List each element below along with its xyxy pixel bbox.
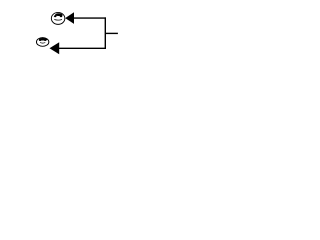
face icon F2 (bottom person) (36, 38, 48, 47)
face icon F1 (top person) (51, 12, 65, 24)
arrowhead to face F2 (50, 42, 60, 54)
wire top horizontal (74, 17, 107, 19)
wire vertical trunk (104, 17, 106, 49)
wire bottom horizontal (59, 47, 106, 49)
wire right stub (105, 32, 118, 34)
arrowhead to face F1 (65, 12, 74, 24)
